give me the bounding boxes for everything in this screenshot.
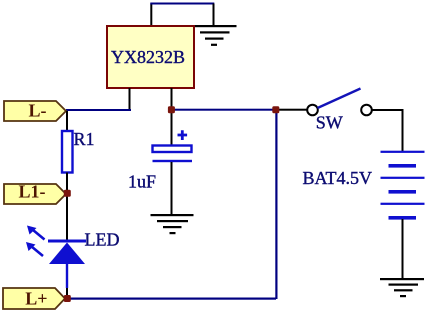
svg-text:YX8232B: YX8232B [111, 47, 185, 67]
svg-text:SW: SW [316, 113, 343, 133]
svg-text:R1: R1 [74, 129, 95, 149]
svg-text:1uF: 1uF [128, 172, 156, 192]
svg-text:LED: LED [85, 230, 120, 250]
svg-text:L+: L+ [25, 289, 47, 309]
svg-text:BAT4.5V: BAT4.5V [302, 168, 372, 188]
svg-text:L-: L- [29, 101, 47, 121]
svg-text:L1-: L1- [19, 182, 46, 202]
